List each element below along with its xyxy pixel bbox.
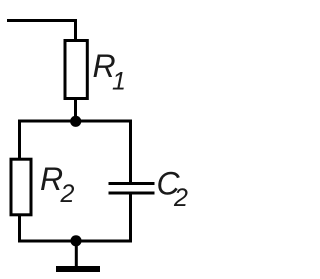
wire C2 to bottom rail (129, 194, 132, 241)
wire bottom rail (18, 240, 132, 243)
svg-text:1: 1 (112, 68, 126, 96)
resistor R1 (65, 41, 87, 99)
svg-text:2: 2 (173, 184, 188, 212)
wire top feed (7, 21, 76, 42)
wire middle rail (20, 121, 131, 183)
node junction top (70, 116, 81, 127)
capacitor C2 (109, 184, 155, 194)
svg-text:2: 2 (60, 180, 75, 208)
resistor R2 (11, 159, 31, 215)
wire ground stub (75, 241, 78, 267)
wire R2 to bottom rail (18, 215, 21, 241)
label C2 (157, 166, 189, 213)
label R1 (93, 48, 126, 96)
label R2 (40, 161, 75, 208)
wire R1 to node (74, 99, 77, 121)
node junction bottom (70, 235, 81, 246)
ground (56, 266, 100, 272)
